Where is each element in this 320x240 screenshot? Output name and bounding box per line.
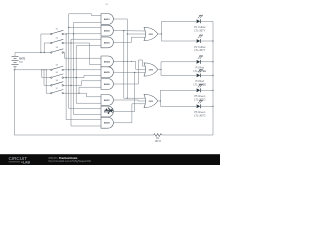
wire led P5 cathode [201, 89, 213, 91]
footer bar with CircuitLab logo [0, 154, 220, 165]
svg-text:AND1: AND1 [104, 18, 111, 21]
led P5 [194, 84, 206, 102]
junction top rail B [44, 52, 45, 53]
switch S1 [51, 29, 64, 35]
wire SW7 output row [63, 92, 86, 94]
wire U7 out [113, 100, 146, 101]
junction cathode bus [212, 106, 213, 107]
wire LED branch top 2 [161, 61, 196, 63]
wire LED branch bottom 3 [160, 105, 196, 107]
switch S2 [51, 38, 64, 44]
wire ladder v3 [71, 39, 101, 126]
wire SW7 to AND7 input [87, 93, 102, 97]
wire battery positive lead [14, 53, 16, 57]
junction v1 row SW1 [66, 33, 67, 34]
wire ladder v1 [66, 34, 101, 120]
wire led P6 cathode [201, 105, 213, 107]
junction OR2 split [160, 69, 161, 70]
junction OR3 split [160, 100, 161, 101]
wire positive rail to top switch group [15, 52, 51, 54]
switch S4 [51, 64, 64, 70]
junction v4 row SW1 [73, 33, 74, 34]
svg-text:LTL-307Y: LTL-307Y [194, 48, 205, 52]
junction U4 crossing c [131, 61, 132, 62]
wire led P2 cathode [201, 40, 213, 42]
junction bottom rail C [46, 69, 47, 70]
wire OR2 output [158, 69, 161, 71]
svg-text:AND5: AND5 [104, 71, 111, 74]
wire U1 out [113, 19, 146, 98]
wire OR1 output [158, 33, 162, 35]
junction v3 row SW2 [70, 42, 71, 43]
wire OR2 split vertical [160, 62, 162, 76]
led P2 [194, 34, 205, 52]
and-gate U6 [101, 79, 113, 90]
wire battery negative lead [13, 67, 16, 135]
wire LED branch top 3 [160, 89, 196, 91]
junction cathode bus [212, 75, 213, 76]
wire led P3 cathode [201, 61, 213, 63]
svg-text:http://circuitlab.com/c/9v5g/5: http://circuitlab.com/c/9v5g/5oapam5d/ [48, 160, 91, 163]
svg-text:AND4: AND4 [104, 60, 111, 63]
junction detail near U8 [105, 108, 114, 114]
wire U5 out [113, 71, 146, 73]
wire SW2 to AND4 input [90, 43, 102, 65]
and-gate U4 [101, 56, 113, 67]
junction bottom rail B [43, 69, 44, 70]
wire SW3 to AND4 input [65, 53, 102, 59]
switch S5 [51, 72, 64, 78]
wire bottom group dropper A [42, 70, 51, 78]
wire OR1 split vertical [161, 21, 163, 41]
led P6 [194, 100, 206, 118]
junction U8 joins U5 net [134, 72, 135, 73]
junction v1 row SW5 [66, 77, 67, 78]
junction top rail A [40, 52, 41, 53]
and-gate U7 [101, 95, 113, 106]
wire LED branch top 1 [162, 20, 197, 22]
svg-text:LTL-307Y: LTL-307Y [194, 28, 205, 32]
wire ladder v4 [74, 22, 101, 114]
svg-text:AND2: AND2 [104, 30, 111, 33]
wire rail to bottom switch group [14, 69, 50, 71]
junction v3 row SW6 [70, 85, 71, 86]
wire SW6 output row [63, 84, 81, 86]
wire ladder v2 [69, 14, 101, 109]
or-gate U10 [144, 27, 158, 40]
junction U1 net OR3 tap [127, 98, 128, 99]
junction U4 crossing a [123, 61, 124, 62]
wire g2 in1 from v2 [69, 26, 101, 28]
led P1 [194, 15, 205, 33]
wire bus to OR3 in1 [124, 31, 147, 99]
svg-text:100 Ω: 100 Ω [155, 141, 161, 143]
wire LED branch bottom 1 [162, 40, 197, 42]
junction v2 row SW4b [68, 69, 69, 70]
battery BAT1 [12, 56, 19, 67]
junction U4 crossing b [127, 61, 128, 62]
wire U4 out [113, 61, 146, 69]
or-gate U12 [144, 94, 158, 107]
wire SW1 output row [63, 33, 66, 35]
resistor R1 [154, 134, 162, 143]
wire U2 out [113, 30, 146, 32]
svg-text:AND7: AND7 [104, 99, 111, 102]
svg-text:AND6: AND6 [104, 83, 111, 86]
wire bottom rail left [14, 134, 153, 136]
wire SW7 to AND6 input [79, 87, 101, 93]
wire bottom group dropper B [44, 70, 51, 86]
wire led P4 cathode [201, 74, 213, 76]
and-gate U9 [101, 117, 113, 128]
switch S3 [51, 47, 64, 53]
wire U9 out [113, 104, 146, 123]
and-gate U2 [101, 25, 113, 36]
svg-text:≡LAB: ≡LAB [21, 160, 30, 164]
junction v5 row SW5 [76, 77, 77, 78]
svg-text:5 V: 5 V [19, 61, 23, 64]
and-gate U5 [101, 67, 113, 78]
junction battery negative tap [14, 69, 15, 70]
junction cathode bus [212, 40, 213, 41]
junction v4 row SW4 [73, 69, 74, 70]
junction U1 net OR1 tap [127, 33, 128, 34]
label BAT1 value [19, 57, 26, 64]
junction cathode bus [212, 61, 213, 62]
svg-text:LTL-307G: LTL-307G [194, 113, 205, 117]
junction row SW7 tap [78, 93, 79, 94]
wire SW5 output row [63, 77, 84, 79]
or-gate U11 [144, 63, 158, 76]
svg-text:AND9: AND9 [104, 122, 111, 125]
wire top group riser B [44, 43, 50, 53]
and-gate U1 [101, 14, 113, 25]
wire U6 out [113, 60, 146, 84]
wire led P1 cathode [201, 20, 213, 22]
wire OR3 split vertical [159, 90, 161, 106]
wire cathode bus [212, 21, 214, 135]
junction OR1 split [161, 33, 162, 34]
wire SW5 to AND5 input [84, 75, 101, 77]
junction bus tap U2 [123, 30, 124, 31]
wire bottom group dropper C [46, 70, 50, 93]
svg-text:AND3: AND3 [104, 41, 111, 44]
switch S6 [51, 80, 64, 86]
wire bottom rail right [162, 134, 213, 136]
wire SW3 output row [63, 52, 64, 54]
wire OR3 output [158, 100, 161, 102]
junction bottom rail A [41, 69, 42, 70]
switch S7 [51, 88, 64, 94]
and-gate U3 [101, 37, 113, 48]
wire ladder v5 [76, 46, 101, 104]
wire SW4 output row [63, 69, 101, 71]
led P3 [193, 55, 206, 73]
wire SW2 output row [63, 42, 89, 44]
led P4 [193, 69, 206, 87]
wire SW6 to AND6 input [82, 81, 102, 86]
wire U8 out [113, 72, 134, 111]
wire LED branch bottom 2 [161, 74, 196, 76]
wire U3 out [113, 37, 146, 42]
wire top group riser A [41, 34, 51, 53]
junction v2 g2in1 [68, 27, 69, 28]
junction cathode bus [212, 90, 213, 91]
and-gate U8 [101, 106, 113, 117]
